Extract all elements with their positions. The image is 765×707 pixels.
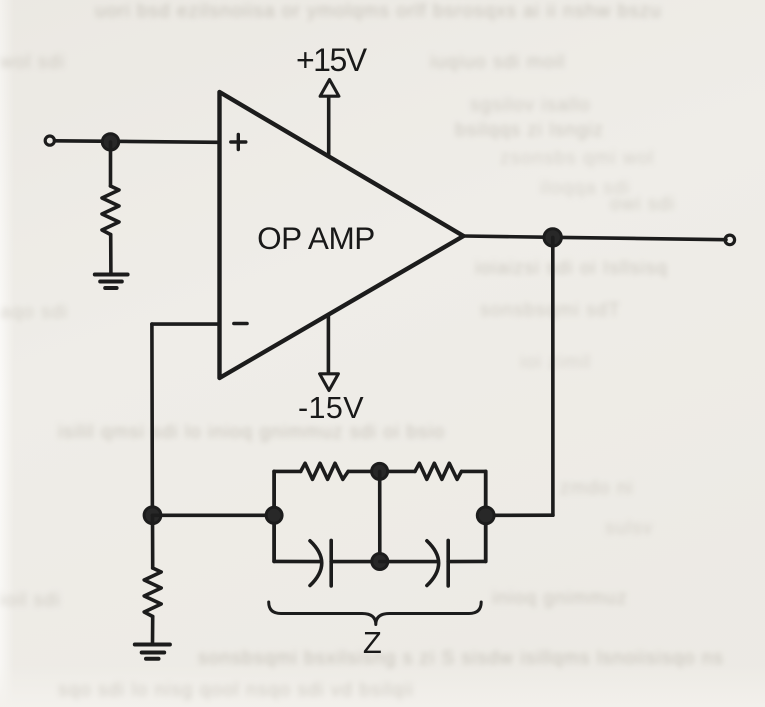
output terminal: [725, 235, 735, 245]
node bottom middle: [372, 554, 388, 570]
wire down to network right node: [486, 513, 553, 517]
resistor R1: [102, 186, 119, 235]
input terminal: [45, 136, 54, 145]
-15V supply wire: [327, 315, 331, 373]
top rail right wire: [462, 470, 486, 474]
top rail middle wire: [348, 470, 415, 474]
bottom rail left wire: [274, 560, 320, 564]
ground (feedback): [135, 645, 170, 659]
node network right: [477, 507, 494, 524]
-15V arrow: [320, 374, 339, 391]
wire C2 to right edge: [448, 560, 486, 564]
op-amp + input mark: [231, 135, 246, 150]
resistor R2: [301, 463, 349, 479]
ground (input bias): [95, 275, 128, 289]
svg-text:+15V: +15V: [296, 42, 368, 78]
network right edge wire: [484, 471, 488, 561]
wire junction down to R1: [109, 142, 113, 186]
node input junction: [102, 134, 118, 150]
node output junction: [544, 229, 561, 246]
op-amp - input mark: [234, 322, 247, 326]
capacitor C2: [427, 540, 448, 586]
wire inverting input: [152, 322, 218, 326]
wire left node down to R4: [151, 515, 155, 568]
svg-text:Z: Z: [363, 625, 382, 660]
network left edge wire: [272, 471, 276, 561]
brace for Z: [269, 602, 482, 625]
op-amp U1: [220, 92, 464, 378]
resistor R4: [144, 568, 161, 617]
wire feedback left vertical: [150, 324, 154, 515]
+15V supply wire: [327, 98, 331, 157]
node feedback left: [144, 507, 161, 524]
middle vertical wire: [378, 471, 382, 561]
wire R4 to ground: [151, 617, 155, 644]
wire left node to network: [153, 513, 275, 517]
node top middle: [372, 463, 388, 479]
svg-text:OP AMP: OP AMP: [257, 220, 375, 256]
wire R1 to ground: [109, 235, 113, 274]
wire input to noninverting input: [55, 141, 218, 143]
wire output: [464, 236, 727, 240]
resistor R3: [415, 463, 462, 479]
wire output junction down: [551, 237, 555, 515]
node network left: [266, 507, 282, 523]
capacitor C1: [310, 540, 331, 586]
wire C1 to middle node: [331, 560, 380, 564]
top rail left wire: [274, 470, 301, 474]
svg-text:-15V: -15V: [298, 391, 364, 425]
wire middle node to C2: [380, 560, 437, 564]
+15V arrow: [320, 80, 339, 97]
